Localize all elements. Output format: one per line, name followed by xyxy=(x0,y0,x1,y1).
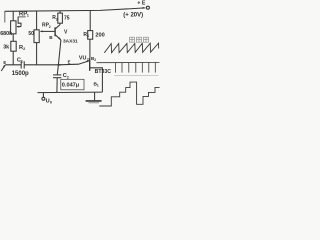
svg-text:3: 3 xyxy=(56,17,58,21)
wire RP2 down xyxy=(36,43,38,65)
svg-text:200: 200 xyxy=(95,33,104,39)
wire bottom rail xyxy=(38,91,103,94)
wire B1 lead xyxy=(90,68,103,92)
terminal U0 circle xyxy=(42,97,45,100)
terminal U0 stem xyxy=(42,93,44,98)
waveform comb baseline xyxy=(114,75,159,77)
svg-text:1: 1 xyxy=(97,83,99,87)
resistor R2 xyxy=(11,41,16,51)
resistor R4 xyxy=(88,31,93,40)
svg-text:2: 2 xyxy=(49,25,51,29)
ground stem xyxy=(94,92,96,100)
svg-text:2: 2 xyxy=(87,58,89,62)
wire RP1 to R2 xyxy=(12,34,14,42)
waveform comb top line xyxy=(97,61,160,63)
svg-text:BT33C: BT33C xyxy=(95,69,112,75)
wire left stub xyxy=(4,11,6,22)
transistor V bar xyxy=(54,27,56,36)
svg-text:75: 75 xyxy=(64,15,70,21)
capacitor C1 xyxy=(20,61,22,68)
svg-text:1: 1 xyxy=(21,60,23,64)
capacitor C2 bottom wire xyxy=(56,78,58,93)
waveform staircase xyxy=(99,82,159,106)
waveform comb ticks xyxy=(115,63,117,73)
resistor R3 xyxy=(58,13,63,23)
svg-text:+ E: + E xyxy=(137,1,145,7)
transistor V emitter xyxy=(55,35,61,40)
svg-text:2: 2 xyxy=(94,58,96,62)
potentiometer RP1 xyxy=(11,21,16,34)
terminal +E arrowhead xyxy=(143,7,146,9)
svg-text:2: 2 xyxy=(23,47,25,51)
wiper RP1 arrow xyxy=(17,26,21,28)
wire B2 to R4 xyxy=(89,39,91,58)
svg-text:0.047μ: 0.047μ xyxy=(62,82,80,88)
label RP1 underline xyxy=(18,16,26,18)
svg-text:VU: VU xyxy=(79,55,87,61)
node junction dot xyxy=(57,64,59,66)
svg-text:(+ 20V): (+ 20V) xyxy=(123,13,143,19)
wire RP1 feed xyxy=(12,11,14,21)
wire RP1 wiper riser xyxy=(18,17,21,27)
svg-text:1500p: 1500p xyxy=(12,71,29,77)
wiper RP2 arrow xyxy=(41,30,55,32)
ground bar 1 xyxy=(86,100,102,102)
input arrow xyxy=(1,65,5,71)
svg-text:3k: 3k xyxy=(3,44,9,50)
svg-text:3AX31: 3AX31 xyxy=(63,38,78,44)
wire V emitter column xyxy=(58,40,61,65)
ground bar 2 xyxy=(89,102,100,104)
svg-text:50: 50 xyxy=(28,31,34,37)
potentiometer RP2 xyxy=(34,30,39,43)
wire RP2 feed xyxy=(36,11,38,30)
svg-text:E: E xyxy=(68,59,71,64)
label waveform-diagram glyph 1 xyxy=(130,37,135,42)
svg-text:2: 2 xyxy=(67,75,69,79)
wire UJT emitter xyxy=(59,61,90,65)
value box 0.047u xyxy=(61,79,84,90)
terminal +E circle xyxy=(146,6,149,9)
wire main bus xyxy=(5,64,21,66)
wire R4 top xyxy=(89,10,91,30)
UJT VU2 bar xyxy=(89,58,91,71)
transistor V collector xyxy=(55,23,60,29)
svg-text:E: E xyxy=(3,60,6,65)
wire top supply rail xyxy=(5,8,146,11)
wire R2 down to bus xyxy=(12,51,14,65)
capacitor C2 plates xyxy=(53,74,61,76)
svg-text:4: 4 xyxy=(87,34,89,38)
svg-text:680k: 680k xyxy=(0,31,12,37)
label waveform-diagram glyph 3 xyxy=(144,37,149,42)
label waveform-diagram glyph 2 xyxy=(137,37,142,42)
svg-text:0: 0 xyxy=(50,101,52,105)
capacitor C2 top wire xyxy=(57,65,58,75)
wire R3 top xyxy=(59,11,61,14)
waveform sawtooth xyxy=(104,43,158,53)
